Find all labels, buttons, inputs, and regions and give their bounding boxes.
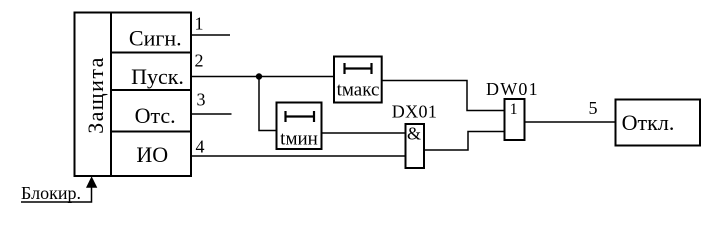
svg-text:5: 5 bbox=[589, 98, 598, 118]
svg-text:Блокир.: Блокир. bbox=[21, 183, 81, 203]
timer block tмин box bbox=[277, 103, 322, 150]
junction node on wire 2 bbox=[256, 73, 262, 79]
divider row1/row2 bbox=[111, 52, 191, 54]
wire 3 stub bbox=[191, 113, 232, 115]
block U1 Защита column divider bbox=[110, 13, 112, 177]
timer symbol in tмакс bbox=[344, 63, 372, 74]
svg-text:4: 4 bbox=[196, 137, 205, 157]
svg-text:1: 1 bbox=[195, 14, 204, 34]
block U1 Защита outer box bbox=[75, 13, 192, 177]
arrowhead Блокир into Защита bbox=[86, 176, 97, 188]
svg-text:DX01: DX01 bbox=[392, 102, 438, 122]
wire tмакс output to DW01 top input bbox=[382, 81, 505, 111]
wire 5 DW01 output to Откл bbox=[525, 121, 616, 123]
svg-text:tмин: tмин bbox=[280, 129, 318, 150]
AND gate DX01 box bbox=[406, 124, 425, 168]
wire tмин output to DX01 input bbox=[322, 132, 406, 134]
svg-text:3: 3 bbox=[197, 90, 206, 110]
wire 1 stub bbox=[191, 34, 230, 36]
svg-text:Пуск.: Пуск. bbox=[131, 64, 184, 89]
svg-text:Сигн.: Сигн. bbox=[129, 26, 182, 51]
timer block tмакс box bbox=[334, 57, 382, 103]
svg-text:1: 1 bbox=[510, 101, 518, 118]
svg-text:ИО: ИО bbox=[136, 142, 168, 167]
OR gate DW01 box bbox=[505, 99, 525, 140]
wire Блокир input line bbox=[21, 186, 92, 202]
svg-text:2: 2 bbox=[195, 51, 204, 71]
svg-text:Откл.: Откл. bbox=[622, 110, 675, 135]
timer symbol in tмин bbox=[285, 111, 315, 122]
divider row3/row4 bbox=[111, 131, 191, 133]
svg-text:&: & bbox=[407, 124, 421, 144]
svg-text:tмакс: tмакс bbox=[337, 80, 380, 101]
wire junction to tмин input bbox=[259, 77, 277, 131]
wire 2 bbox=[191, 76, 334, 78]
wire DX01 output to DW01 bottom input bbox=[424, 132, 505, 151]
divider row2/row3 bbox=[111, 89, 191, 91]
svg-text:DW01: DW01 bbox=[486, 79, 539, 99]
block Откл box bbox=[616, 100, 701, 146]
wire 4 bbox=[191, 155, 406, 157]
svg-text:Отс.: Отс. bbox=[135, 103, 176, 128]
svg-text:Защита: Защита bbox=[83, 56, 108, 134]
